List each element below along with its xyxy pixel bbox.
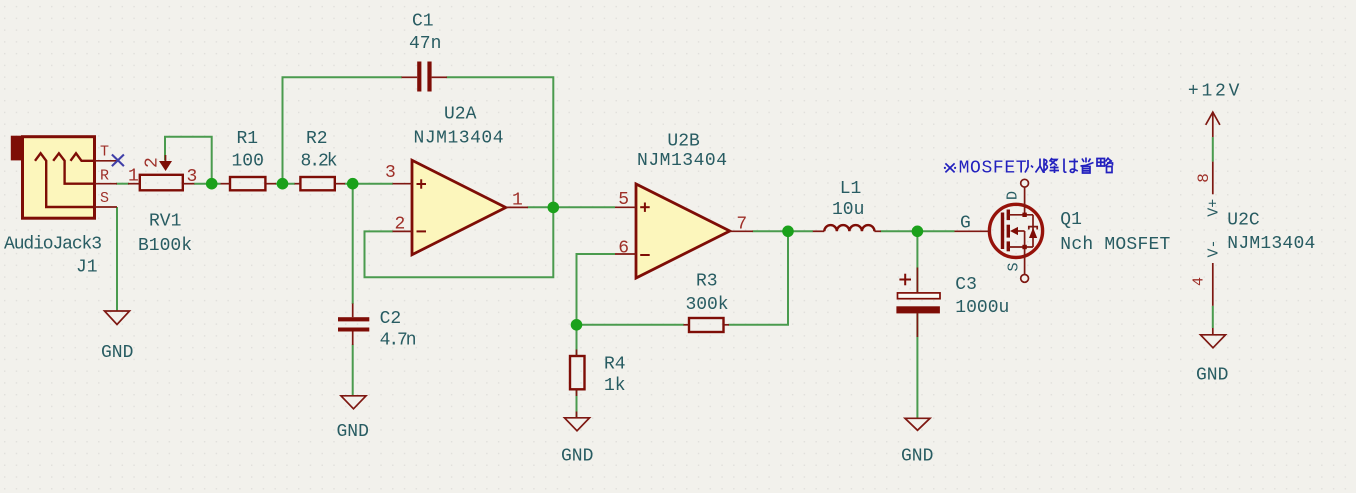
- svg-text:2: 2: [395, 215, 406, 235]
- svg-text:6: 6: [618, 239, 629, 259]
- svg-text:100: 100: [232, 152, 264, 172]
- svg-text:1: 1: [128, 167, 139, 187]
- svg-text:8.2k: 8.2k: [301, 152, 338, 172]
- svg-text:NJM13404: NJM13404: [414, 129, 504, 149]
- svg-text:T: T: [100, 143, 109, 160]
- svg-text:R1: R1: [237, 129, 259, 149]
- svg-text:5: 5: [618, 190, 629, 210]
- svg-text:J1: J1: [76, 258, 98, 278]
- svg-text:GND: GND: [101, 343, 133, 363]
- svg-text:R: R: [100, 168, 109, 185]
- svg-text:MOSFET: MOSFET: [959, 159, 1027, 179]
- svg-text:U2B: U2B: [667, 132, 700, 152]
- svg-text:NJM13404: NJM13404: [1227, 234, 1315, 254]
- svg-text:4: 4: [1190, 277, 1207, 286]
- svg-text:AudioJack3: AudioJack3: [4, 235, 102, 255]
- svg-text:GND: GND: [337, 422, 369, 442]
- svg-text:GND: GND: [901, 446, 933, 466]
- svg-text:U2A: U2A: [444, 105, 477, 125]
- svg-text:RV1: RV1: [149, 212, 181, 232]
- svg-text:S: S: [1005, 262, 1022, 271]
- svg-text:NJM13404: NJM13404: [637, 151, 727, 171]
- svg-text:10u: 10u: [832, 200, 864, 220]
- svg-text:1k: 1k: [604, 376, 626, 396]
- svg-text:C2: C2: [380, 309, 402, 329]
- svg-text:V-: V-: [1206, 239, 1223, 257]
- svg-text:Nch MOSFET: Nch MOSFET: [1060, 235, 1170, 255]
- svg-text:U2C: U2C: [1227, 211, 1260, 231]
- svg-text:GND: GND: [1196, 366, 1228, 386]
- svg-text:R4: R4: [604, 354, 626, 374]
- svg-text:300k: 300k: [686, 295, 729, 315]
- svg-text:2: 2: [143, 157, 163, 168]
- svg-text:R2: R2: [306, 129, 328, 149]
- svg-text:D: D: [1004, 191, 1021, 200]
- svg-text:R3: R3: [696, 272, 718, 292]
- svg-text:1: 1: [512, 191, 523, 211]
- svg-text:1000u: 1000u: [955, 298, 1009, 318]
- svg-text:GND: GND: [561, 446, 593, 466]
- svg-text:L1: L1: [840, 179, 862, 199]
- svg-text:3: 3: [187, 167, 198, 187]
- svg-text:47n: 47n: [409, 34, 441, 54]
- svg-text:4.7n: 4.7n: [380, 331, 417, 351]
- svg-text:C1: C1: [412, 12, 434, 32]
- svg-text:G: G: [960, 214, 971, 234]
- svg-text:Q1: Q1: [1060, 210, 1082, 230]
- svg-text:C3: C3: [955, 275, 977, 295]
- svg-text:7: 7: [736, 214, 747, 234]
- svg-text:8: 8: [1195, 173, 1213, 183]
- svg-text:S: S: [100, 190, 109, 207]
- svg-text:V+: V+: [1206, 199, 1223, 217]
- svg-text:3: 3: [385, 163, 396, 183]
- svg-text:B100k: B100k: [138, 236, 192, 256]
